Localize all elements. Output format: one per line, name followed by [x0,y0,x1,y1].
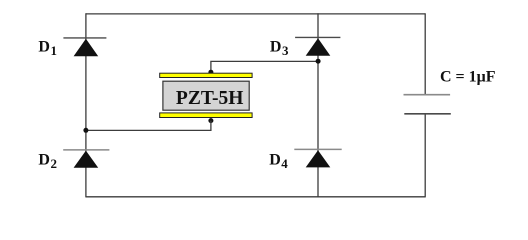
diode D3 [295,37,340,55]
diode D1 [63,38,106,56]
label D1 [38,39,57,59]
svg-text:C = 1μF: C = 1μF [440,68,496,85]
node junction on piezo top electrode [208,70,213,75]
diode D2 [63,150,109,168]
svg-text:PZT-5H: PZT-5H [176,88,244,109]
svg-text:2: 2 [51,156,58,171]
capacitor C bottom plate [404,113,451,115]
wire left branch [85,13,87,197]
wire capacitor bottom lead [424,114,426,198]
piezo bottom electrode [160,113,252,118]
wire piezo bottom electrode to left branch [86,121,211,131]
node junction on piezo bottom electrode [208,118,213,123]
diode D4 [294,149,341,167]
svg-text:D: D [38,39,50,56]
svg-text:4: 4 [281,156,288,171]
piezo top electrode [160,73,252,77]
svg-text:1: 1 [51,43,58,58]
label C = 1uF [440,68,496,85]
piezo body PZT-5H [163,81,249,110]
node junction on right branch [316,59,321,64]
svg-text:3: 3 [282,43,289,58]
capacitor C top plate [404,94,451,96]
wire bottom rail [86,196,425,198]
svg-text:D: D [270,39,282,56]
wire piezo top electrode to right branch [211,61,319,72]
label D2 [38,151,57,171]
node junction on left branch [83,128,88,133]
svg-text:D: D [269,151,281,168]
wire top rail [86,13,425,15]
wire capacitor top lead [424,13,426,94]
svg-text:D: D [38,151,50,168]
wire right branch [317,13,319,197]
label D4 [269,151,288,171]
label D3 [270,39,289,59]
